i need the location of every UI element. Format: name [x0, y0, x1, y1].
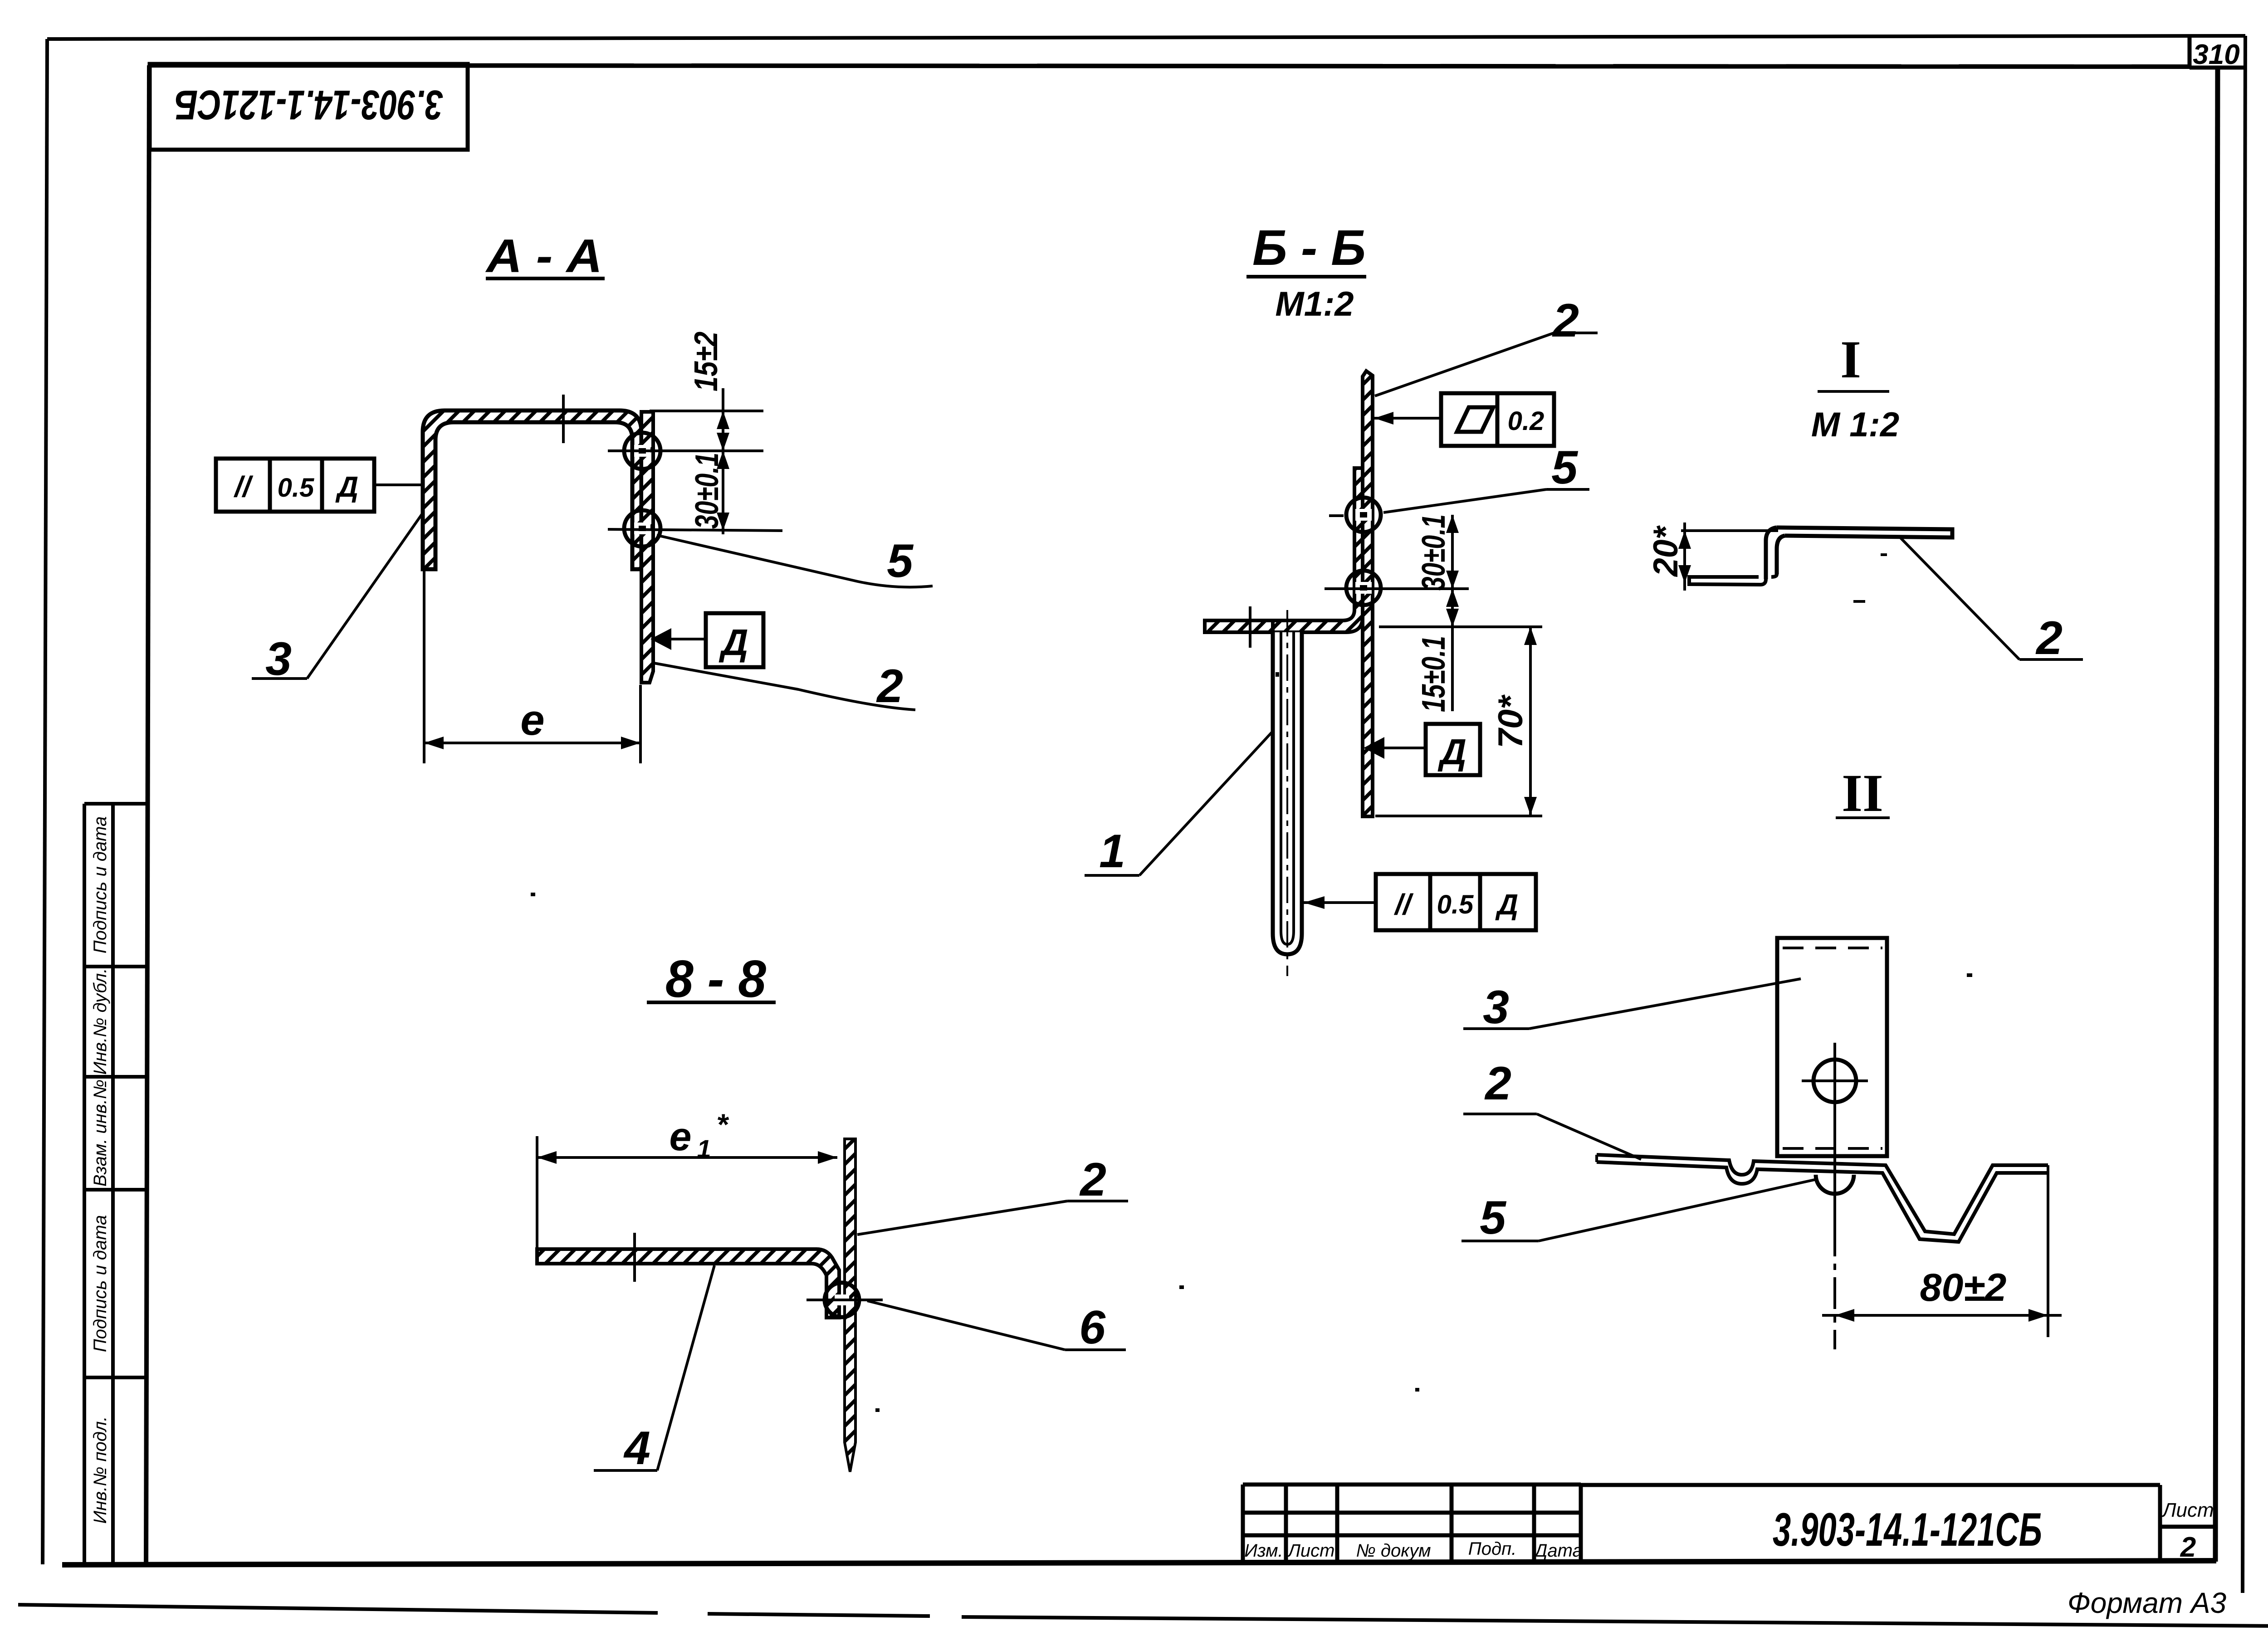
tolerance leader with arrow: [1304, 901, 1376, 904]
svg-text:М 1:2: М 1:2: [1811, 405, 1899, 444]
svg-text:0.2: 0.2: [1508, 406, 1545, 436]
Z profile step: [1766, 527, 1785, 579]
svg-text:Формат А3: Формат А3: [2068, 1587, 2227, 1619]
svg-text:4: 4: [623, 1422, 650, 1475]
svg-text:15±0.1: 15±0.1: [1416, 636, 1452, 712]
svg-text:20*: 20*: [1647, 525, 1685, 577]
svg-text:310: 310: [2193, 39, 2239, 70]
svg-text:Дата: Дата: [1533, 1541, 1583, 1561]
stamp box top-left (inverted doc number): [150, 64, 468, 150]
doc number cell top line: [1581, 1483, 2160, 1487]
svg-text:80±2: 80±2: [1920, 1266, 2007, 1309]
hole crosshair vertical / centerline down: [1833, 1043, 1836, 1225]
svg-text:6: 6: [1079, 1301, 1106, 1354]
plate part 4 horizontal (hatched) with bent right end: [537, 1249, 839, 1318]
flatness leader: [1374, 417, 1441, 420]
svg-text:Д: Д: [1437, 732, 1466, 772]
rivet 5 lower: [624, 510, 660, 547]
flatness tolerance frame 0.2: [1441, 393, 1554, 446]
flange top extension line: [1379, 625, 1542, 628]
rivet 6: [825, 1283, 859, 1317]
svg-text:Д: Д: [1495, 888, 1518, 921]
dim line 30±0.1 / 15±0.1 vertical: [1451, 515, 1454, 711]
rivet 5 lower: [1346, 571, 1381, 605]
svg-text:5: 5: [1480, 1192, 1507, 1244]
svg-text:Лист: Лист: [2161, 1499, 2214, 1521]
Z profile lower flange: [1689, 574, 1777, 585]
svg-text:2: 2: [2180, 1532, 2196, 1563]
svg-text:I: I: [1840, 330, 1861, 389]
rod centerline: [1286, 610, 1288, 976]
svg-text:30±0.1: 30±0.1: [689, 453, 725, 529]
rivet 5 head under profile: [1816, 1175, 1854, 1194]
dimension e bottom: [423, 571, 425, 763]
plate 3 dashed bend lines: [1783, 947, 1882, 949]
dim line 20*: [1683, 523, 1686, 591]
svg-text:Подп.: Подп.: [1468, 1539, 1516, 1559]
svg-text:2: 2: [1484, 1057, 1511, 1110]
svg-text:0.5: 0.5: [278, 473, 314, 503]
dim arrows: [1446, 515, 1459, 533]
left margin strip: [84, 804, 148, 1563]
rivet1 centerline tick: [1329, 514, 1344, 517]
bent bracket part 3 leg and flange (hatched): [1205, 468, 1363, 632]
svg-text:30±0.1: 30±0.1: [1416, 514, 1452, 591]
svg-text:e: e: [520, 696, 544, 744]
svg-text://: //: [1393, 888, 1414, 921]
tolerance leader: [374, 483, 424, 486]
title underline: [486, 277, 605, 280]
flange left of rod (hatched overlay): [1205, 620, 1273, 632]
svg-text:5: 5: [1551, 441, 1579, 494]
svg-text:Инв.№ дубл.: Инв.№ дубл.: [90, 968, 110, 1075]
svg-text://: //: [233, 470, 254, 503]
plate part 2 (hatched, right): [641, 412, 653, 683]
scattered scan specks: [531, 672, 1972, 1412]
svg-text:Б - Б: Б - Б: [1252, 220, 1366, 276]
svg-text:2: 2: [1552, 294, 1579, 347]
svg-text:*: *: [716, 1108, 729, 1141]
svg-text:М1:2: М1:2: [1275, 285, 1354, 323]
plate part 2 vertical (hatched): [1363, 371, 1373, 816]
svg-text:Лист: Лист: [1287, 1541, 1335, 1561]
SECTION A-A: [216, 230, 933, 763]
dim line 70* vertical: [1529, 627, 1532, 815]
svg-text:Инв.№ подл.: Инв.№ подл.: [90, 1416, 110, 1524]
extension line rivet1: [608, 449, 763, 452]
dimension 80±2: [1822, 1314, 2062, 1317]
svg-text:Д: Д: [335, 470, 358, 503]
dimension line 15±2 / 30±0.1 vertical: [722, 388, 724, 534]
outer border left: [43, 39, 47, 1564]
hole crosshair horizontal: [1802, 1079, 1868, 1082]
svg-text:e: e: [670, 1114, 692, 1159]
svg-text:Д: Д: [719, 622, 748, 663]
svg-text:3: 3: [1483, 981, 1509, 1034]
svg-text:Взам. инв.№: Взам. инв.№: [90, 1079, 110, 1187]
svg-text:Изм.: Изм.: [1244, 1541, 1283, 1561]
svg-text:Подпись и дата: Подпись и дата: [90, 1215, 110, 1353]
svg-text:А - А: А - А: [485, 230, 602, 283]
svg-text:Подпись и дата: Подпись и дата: [90, 816, 110, 954]
right extension line of profile: [2047, 1165, 2049, 1337]
svg-text:1: 1: [697, 1134, 711, 1163]
hole in plate 3: [1813, 1060, 1856, 1102]
title underline: [1818, 390, 1889, 393]
extension line rivet2: [608, 529, 782, 531]
stray mark: [1853, 600, 1865, 603]
paper edge artifact line: [18, 1605, 2268, 1626]
title underline: [1246, 275, 1366, 278]
dim arrows: [717, 411, 729, 429]
extension line top edge: [650, 410, 763, 412]
frame right line: [2215, 67, 2218, 1562]
svg-text:II: II: [1842, 763, 1883, 823]
rod inner wall lines: [1281, 632, 1294, 944]
frame left line: [146, 65, 149, 1563]
svg-text:8 - 8: 8 - 8: [665, 949, 766, 1008]
SECTION II (detail): [1461, 763, 2062, 1349]
SECTION I (detail): [1647, 330, 2083, 664]
surface finish flag Д: [706, 613, 763, 667]
SECTION В-В (handwritten as 8-8): [537, 949, 1128, 1475]
dimension e1*: [536, 1136, 538, 1265]
outer border top: [47, 36, 2245, 39]
bottom extension line: [1375, 815, 1542, 817]
sheet number box 310: [2190, 37, 2244, 68]
SECTION Б-Б: [1085, 220, 1598, 976]
parallelism tolerance frame // 0.5 Д (Б-Б): [1376, 874, 1536, 930]
rivet 5 upper: [624, 433, 660, 469]
svg-text:2: 2: [2035, 612, 2063, 664]
svg-text:5: 5: [887, 535, 914, 587]
parallelism tolerance frame // 0.5 Д: [216, 459, 374, 512]
plate part 3 outline: [1777, 938, 1887, 1156]
extension line 20* top: [1681, 529, 1778, 532]
frame bottom line: [62, 1561, 2216, 1565]
frame top line: [148, 65, 2190, 67]
Z profile part 2: upper flange: [1777, 527, 1952, 537]
list box: [2158, 1485, 2162, 1562]
title underline: [647, 1001, 776, 1004]
svg-text:15±2: 15±2: [688, 332, 724, 391]
svg-text:3.903-14.1-121СБ: 3.903-14.1-121СБ: [175, 82, 443, 128]
centerline tick on top plate: [562, 395, 565, 443]
rivet 5 upper: [1346, 498, 1381, 532]
svg-text:2: 2: [1079, 1153, 1106, 1206]
outer border right: [2243, 36, 2245, 1593]
rod part 1 outline: [1273, 632, 1302, 954]
channel part 3 (hatched section): [423, 410, 641, 569]
profile part 2 with V channel (double line): [1597, 1155, 2048, 1234]
title underline: [1836, 816, 1890, 819]
svg-text:3.903-14.1-121СБ: 3.903-14.1-121СБ: [1773, 1504, 2042, 1556]
centerline tick on flange: [1249, 606, 1251, 648]
title block table: [1243, 1485, 2216, 1563]
svg-text:0.5: 0.5: [1437, 890, 1474, 919]
rivet2 extension line: [1325, 587, 1469, 590]
svg-text:1: 1: [1099, 825, 1125, 878]
vertical plate part 2 (hatched): [845, 1139, 855, 1472]
svg-text:№ докум: № докум: [1356, 1541, 1431, 1561]
svg-text:70*: 70*: [1491, 694, 1530, 748]
rivet centerline tick: [807, 1299, 883, 1301]
surface finish flag Д (Б-Б): [1426, 724, 1480, 775]
centerline tick on plate 4: [633, 1233, 636, 1282]
